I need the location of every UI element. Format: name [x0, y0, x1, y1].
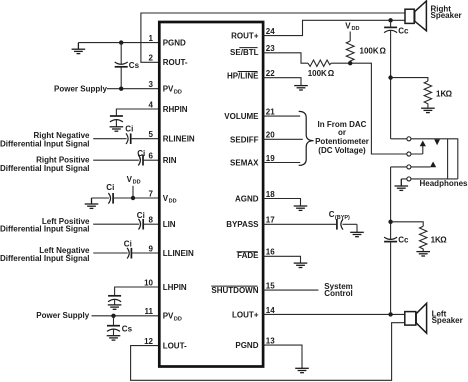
svg-text:6: 6 [149, 152, 154, 161]
wire pin13 PGND to ground [263, 345, 302, 368]
svg-text:SE/BTL: SE/BTL [230, 48, 259, 57]
ground pin16 [294, 263, 308, 267]
label In From DAC or Potentiometer (DC Voltage) [315, 120, 369, 155]
svg-text:LLINEIN: LLINEIN [163, 249, 194, 258]
supply symbol Vdd above 100k resistor [345, 22, 359, 42]
resistor 1k (top right vertical) [424, 81, 452, 108]
jack contact circle line1 [407, 137, 411, 141]
pin 11 label PVdd [163, 312, 182, 323]
wire pin16 FADE to ground [263, 256, 300, 263]
svg-text:Ω: Ω [440, 235, 447, 244]
svg-text:Ci: Ci [125, 124, 133, 133]
svg-text:Cs: Cs [129, 61, 140, 70]
svg-text:SEDIFF: SEDIFF [230, 135, 259, 144]
svg-text:19: 19 [266, 154, 275, 163]
svg-text:Ω: Ω [446, 90, 453, 99]
capacitor Cc (right, coupling) [384, 20, 409, 139]
svg-text:Cs: Cs [122, 325, 133, 334]
svg-text:PV: PV [163, 312, 174, 321]
label Right Speaker [431, 5, 462, 20]
svg-text:Cc: Cc [398, 235, 409, 244]
jack contact circle line2 [407, 152, 411, 156]
headphone jack inner body line [447, 139, 449, 179]
wire to 1k resistor bottom right [391, 222, 424, 226]
svg-text:14: 14 [266, 306, 275, 315]
svg-text:12: 12 [144, 337, 153, 346]
svg-text:Ci: Ci [106, 183, 114, 192]
capacitor Ci at Vdd pin7 [92, 183, 160, 203]
svg-text:2: 2 [149, 54, 154, 63]
ground 1k top right [421, 108, 435, 112]
wire pin24 ROUT+ to right speaker [263, 20, 405, 35]
svg-text:Headphones: Headphones [420, 179, 468, 188]
capacitor Ci at RLINEIN pin5 [93, 124, 159, 144]
wire pin11 PVdd power supply [92, 315, 160, 317]
svg-text:100K: 100K [360, 47, 379, 56]
svg-text:100K: 100K [308, 69, 327, 78]
capacitor at RHPIN [110, 116, 123, 127]
svg-text:3: 3 [149, 80, 154, 89]
svg-text:7: 7 [149, 189, 154, 198]
svg-text:9: 9 [149, 244, 154, 253]
node junction Vdd stem pin7 [131, 196, 135, 200]
svg-text:8: 8 [149, 216, 154, 225]
svg-text:(DC Voltage): (DC Voltage) [318, 146, 366, 155]
pin 7 label Vdd [163, 194, 177, 205]
svg-text:17: 17 [266, 216, 275, 225]
ground headphone sleeve [395, 179, 409, 191]
svg-text:LOUT+: LOUT+ [232, 310, 259, 319]
wire pin4 RHPIN [116, 109, 159, 116]
wire pin12 LOUT- to bottom rail [131, 323, 405, 381]
svg-text:PGND: PGND [163, 38, 186, 47]
ground at pin7 cap [85, 198, 99, 208]
svg-text:DD: DD [169, 199, 177, 205]
resistor 100k pullup (vertical) [346, 41, 386, 63]
svg-text:16: 16 [266, 248, 275, 257]
svg-text:23: 23 [266, 44, 275, 53]
svg-text:5: 5 [149, 130, 154, 139]
wire pin2 ROUT- to top rail [141, 13, 405, 62]
pin 23 label SE/BTL with overline on BTL [230, 48, 259, 58]
ground Cs2 [107, 336, 121, 340]
wire pin15 SHUTDOWN [263, 289, 318, 291]
headphone jack down contact arrow [434, 139, 440, 145]
headphone jack line 1 (tip) [391, 139, 458, 179]
svg-text:Speaker: Speaker [432, 316, 463, 325]
capacitor Cbyp [329, 210, 357, 232]
svg-text:HP/LINE: HP/LINE [227, 71, 259, 80]
svg-text:LHPIN: LHPIN [163, 283, 187, 292]
label System Control [324, 282, 352, 298]
svg-text:DD: DD [352, 26, 360, 32]
svg-text:ROUT+: ROUT+ [231, 32, 259, 41]
ground pin22 [294, 86, 308, 90]
wire pin14 LOUT+ to left speaker [263, 313, 405, 315]
svg-text:Control: Control [324, 289, 352, 298]
svg-text:15: 15 [266, 282, 275, 291]
wire to 1k resistor top right [391, 78, 428, 81]
svg-text:PGND: PGND [235, 341, 258, 350]
svg-text:VOLUME: VOLUME [224, 112, 259, 121]
svg-text:C: C [329, 210, 335, 219]
brace grouping pins 21-19 [299, 111, 314, 165]
svg-text:10: 10 [144, 278, 153, 287]
speaker left (box and horn) [405, 303, 427, 333]
headphone jack line 4 (sleeve) [401, 178, 458, 180]
op-amp U1 audio amplifier IC body [159, 22, 263, 367]
svg-text:Differential Input Signal: Differential Input Signal [0, 164, 90, 173]
svg-text:Differential Input Signal: Differential Input Signal [0, 254, 90, 263]
capacitor at LHPIN [108, 296, 121, 305]
svg-text:ROUT-: ROUT- [163, 58, 188, 67]
capacitor Cs (top bypass) [115, 43, 140, 89]
node junction pin11/Cs2 [111, 314, 115, 318]
ground RHPIN cap [110, 127, 124, 131]
svg-text:AGND: AGND [235, 194, 259, 203]
ground pin1 [72, 43, 86, 54]
svg-text:PV: PV [163, 85, 174, 94]
node junction 100k divider [348, 61, 352, 65]
svg-text:22: 22 [266, 69, 275, 78]
capacitor Ci at LIN pin8 [93, 211, 159, 230]
capacitor Cs (bottom bypass) [107, 316, 133, 336]
wire pin18 AGND to ground [263, 199, 300, 206]
svg-text:4: 4 [149, 100, 154, 109]
speaker right (box and horn) [405, 1, 426, 31]
svg-text:Potentiometer: Potentiometer [315, 137, 369, 146]
node junction Cc2 tap [388, 312, 392, 316]
svg-text:Ci: Ci [124, 239, 132, 248]
pin 16 label FADE with overline [237, 251, 260, 260]
svg-text:Ω: Ω [328, 69, 335, 78]
resistor 100k series (horizontal) [308, 60, 335, 78]
svg-text:Differential Input Signal: Differential Input Signal [0, 140, 90, 149]
ground pin18 [294, 206, 308, 210]
wire pin23 SE/BTL [263, 53, 308, 63]
pin 22 label HP/LINE with overline on LINE [227, 71, 259, 80]
headphone jack line 3 (ring) with up arrow [391, 162, 437, 168]
node junction 1k tap right [388, 75, 392, 79]
svg-text:or: or [338, 128, 346, 137]
pin 3 label PVdd [163, 85, 182, 96]
svg-text:Ci: Ci [137, 211, 145, 220]
svg-text:V: V [345, 22, 351, 31]
ground pin13 [295, 368, 309, 372]
svg-text:RLINEIN: RLINEIN [163, 135, 195, 144]
jack contact circle line3 [407, 165, 411, 169]
wire pin1 PGND to ground [78, 42, 159, 44]
capacitor Cc (left, coupling) [384, 167, 409, 315]
svg-text:LOUT-: LOUT- [163, 341, 187, 350]
wire pin10 LHPIN [115, 287, 159, 295]
wire resistor to headphone sense [331, 63, 423, 154]
label Left Speaker [432, 310, 463, 325]
svg-text:11: 11 [145, 307, 154, 316]
svg-text:1: 1 [149, 34, 154, 43]
ground Cbyp [350, 232, 364, 236]
capacitor Ci at LLINEIN pin9 [93, 239, 159, 258]
svg-text:RHPIN: RHPIN [163, 105, 188, 114]
wire pin20 SEDIFF [263, 138, 303, 140]
svg-text:13: 13 [266, 337, 275, 346]
svg-text:21: 21 [266, 108, 275, 117]
svg-text:Differential Input Signal: Differential Input Signal [0, 225, 90, 234]
svg-text:DD: DD [174, 316, 182, 322]
capacitor Ci at RIN pin6 [93, 149, 159, 165]
svg-text:18: 18 [266, 190, 275, 199]
svg-text:Power Supply: Power Supply [54, 84, 107, 93]
svg-text:Ω: Ω [380, 47, 387, 56]
ground 1k bottom right [416, 252, 430, 256]
svg-text:LIN: LIN [163, 220, 176, 229]
wire pin21 VOLUME [263, 115, 300, 117]
supply symbol Vdd at pin7 [127, 175, 141, 198]
node junction Cs/pin3 [119, 87, 123, 91]
wire pin22 HP/LINE to ground [263, 78, 301, 86]
node junction 1k tap left [388, 220, 392, 224]
svg-text:BYPASS: BYPASS [226, 220, 259, 229]
svg-text:Ci: Ci [137, 149, 145, 158]
wire pin3 PVdd power supply [107, 88, 159, 90]
ground LHPIN cap [108, 305, 122, 309]
svg-text:20: 20 [266, 131, 275, 140]
svg-text:24: 24 [266, 27, 275, 36]
svg-text:DD: DD [174, 89, 182, 95]
svg-text:Cc: Cc [398, 27, 409, 36]
resistor 1k (bottom right vertical) [420, 226, 448, 251]
svg-text:SHUTDOWN: SHUTDOWN [211, 286, 258, 295]
svg-text:DD: DD [133, 179, 141, 185]
node junction Cc1 tap [388, 18, 392, 22]
jack contact circle line4 [407, 177, 411, 181]
svg-text:Power Supply: Power Supply [36, 311, 89, 320]
svg-text:Speaker: Speaker [431, 11, 462, 20]
wire pin19 SEMAX [263, 162, 300, 164]
wire pin17 BYPASS [263, 223, 336, 225]
svg-text:RIN: RIN [163, 156, 177, 165]
svg-text:SEMAX: SEMAX [230, 159, 259, 168]
pin 15 label SHUTDOWN with overline [211, 286, 258, 295]
headphone jack switch arrow up (from line2) [420, 141, 426, 155]
node junction pin1/Cs [119, 40, 123, 44]
